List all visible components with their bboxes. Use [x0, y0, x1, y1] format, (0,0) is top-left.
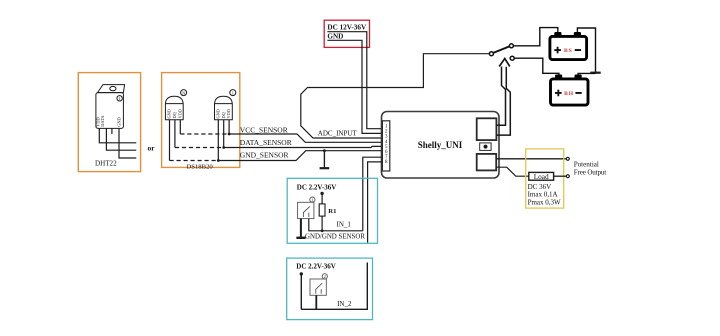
svg-text:1: 1 — [118, 96, 120, 101]
relay module Shelly_UNI — [382, 112, 500, 179]
svg-text:DHT22: DHT22 — [95, 159, 117, 167]
arrowhead — [499, 59, 510, 67]
svg-text:GND_SENSOR: GND_SENSOR — [240, 151, 289, 160]
wire DATA_SENSOR to pin 5 — [224, 146, 383, 147]
resistor R1 — [319, 204, 325, 216]
terminal lower — [566, 175, 569, 178]
wire pin7 to IN_1 — [363, 157, 383, 231]
junction VCC — [228, 133, 231, 136]
svg-text:IN_2: IN_2 — [337, 300, 352, 308]
wire lower contact to battery BH + — [514, 58, 559, 76]
svg-text:DC 2.2V-36V: DC 2.2V-36V — [296, 262, 336, 270]
sensor group box DS18B20 (orange) — [162, 73, 240, 168]
wire switch S2 down — [315, 295, 317, 309]
DS18B20 N pin DQ — [174, 120, 176, 148]
dashed wire GND bus — [170, 160, 219, 162]
wire DHT22 VDD — [99, 128, 136, 142]
svg-text:DQ: DQ — [221, 111, 226, 118]
wire GND to pin 2 — [327, 40, 382, 133]
svg-text:Potential: Potential — [574, 161, 599, 169]
input group box IN_1 (teal) — [287, 178, 377, 243]
dashed wire DATA bus — [175, 147, 224, 149]
wire DC+ to pin 1 — [327, 32, 382, 129]
connector top-right — [477, 118, 497, 140]
svg-text:Load: Load — [534, 172, 549, 181]
wire battery BH - to ground — [578, 73, 595, 74]
switch SPDT battery selector — [489, 52, 493, 56]
DS18B20 1 pin GND — [217, 120, 219, 161]
wire R1 to IN wire — [321, 216, 323, 231]
svg-text:DC 36V: DC 36V — [528, 183, 552, 191]
svg-text:DQ: DQ — [172, 111, 177, 118]
wire terminal down — [300, 275, 302, 309]
svg-text:VDD: VDD — [226, 109, 231, 118]
ground symbol on GND_SENSOR — [323, 149, 326, 152]
svg-text:DS18B20: DS18B20 — [186, 163, 213, 170]
output group box Load (yellow) — [526, 149, 564, 208]
wire Load to terminal — [554, 175, 567, 177]
power input box DC 12V-36V (red) — [324, 20, 369, 47]
wire switch to ground — [300, 219, 302, 238]
svg-text:VDD: VDD — [177, 109, 182, 118]
terminal dot IN_2 — [300, 272, 303, 275]
junction DATA — [222, 146, 225, 149]
DS18B20 1 pin VDD — [228, 120, 230, 134]
ground bar batteries — [590, 72, 600, 74]
svg-text:R1: R1 — [328, 208, 336, 215]
DS18B20 1 pin DQ — [223, 120, 225, 148]
svg-text:DC 12V-36V: DC 12V-36V — [327, 24, 367, 32]
sensor DS18B20 1 — [215, 90, 236, 120]
svg-text:Shelly_UNI: Shelly_UNI — [418, 140, 463, 150]
svg-text:DATA_SENSOR: DATA_SENSOR — [240, 138, 292, 147]
DHT22 unused pin stub — [111, 128, 113, 134]
hollow arrow from connector to switch — [496, 67, 505, 126]
svg-text:1: 1 — [311, 197, 313, 202]
switch blade — [493, 46, 509, 53]
terminal dot above R1 — [320, 192, 323, 195]
DS18B20 N pin VDD — [179, 120, 181, 134]
svg-text:GND: GND — [116, 117, 121, 127]
wire DHT22 DATA — [106, 128, 136, 150]
svg-text:2: 2 — [324, 274, 326, 279]
svg-text:Free Output: Free Output — [574, 168, 607, 176]
junction GND — [217, 159, 220, 162]
wire pin8 to GND/GND SENSOR — [368, 162, 383, 243]
battery BS — [550, 32, 587, 60]
wire upper contact to battery BS + — [513, 28, 557, 46]
battery BH — [551, 75, 589, 106]
terminal upper — [566, 157, 569, 160]
switch S2 — [310, 279, 326, 295]
connector bottom-right — [477, 154, 497, 171]
wire GND_SENSOR to pin 6 — [218, 151, 382, 161]
button — [480, 143, 491, 151]
svg-text:Imax 0,1A: Imax 0,1A — [528, 191, 558, 199]
load resistor box — [529, 172, 554, 180]
wire output lower to Load — [496, 167, 529, 176]
wire terminal to R1 — [321, 195, 323, 204]
svg-text:GND/GND SENSOR: GND/GND SENSOR — [305, 233, 365, 240]
sensor DHT22 — [96, 85, 125, 129]
svg-text:GND: GND — [327, 33, 343, 41]
sensor group box DHT22 (orange) — [78, 73, 140, 172]
DS18B20 N pin GND — [169, 120, 171, 161]
wire ADC_INPUT from battery switch to pin 3 — [301, 54, 490, 138]
dashed wire VCC bus — [180, 133, 229, 135]
pin header 1-8 — [382, 121, 389, 171]
svg-text:Pmax 0,3W: Pmax 0,3W — [528, 199, 561, 207]
wire output upper to terminal — [496, 158, 566, 160]
wire IN_2 loop — [301, 263, 367, 310]
svg-text:1: 1 — [232, 91, 234, 96]
svg-text:IN_1: IN_1 — [337, 221, 352, 229]
wire battery BS - to ground — [577, 28, 595, 73]
wire VCC_SENSOR to pin 4 — [229, 134, 382, 142]
svg-text:BS: BS — [564, 48, 573, 54]
svg-text:DATA: DATA — [100, 115, 105, 127]
svg-text:or: or — [147, 143, 155, 152]
wire switch to IN_1 — [309, 219, 363, 231]
switch S1 — [298, 202, 314, 218]
ground bar IN_1 — [296, 237, 305, 239]
svg-text:GND: GND — [216, 109, 221, 118]
svg-text:DC 2.2V-36V: DC 2.2V-36V — [297, 184, 337, 192]
wire DHT22 GND — [119, 128, 136, 158]
input group box IN_2 (teal) — [287, 258, 373, 320]
svg-text:BH: BH — [564, 91, 574, 97]
svg-text:ADC_INPUT: ADC_INPUT — [318, 129, 358, 137]
svg-text:VCC_SENSOR: VCC_SENSOR — [240, 125, 288, 134]
sensor DS18B20 N — [165, 90, 186, 120]
svg-text:GND: GND — [167, 109, 172, 118]
